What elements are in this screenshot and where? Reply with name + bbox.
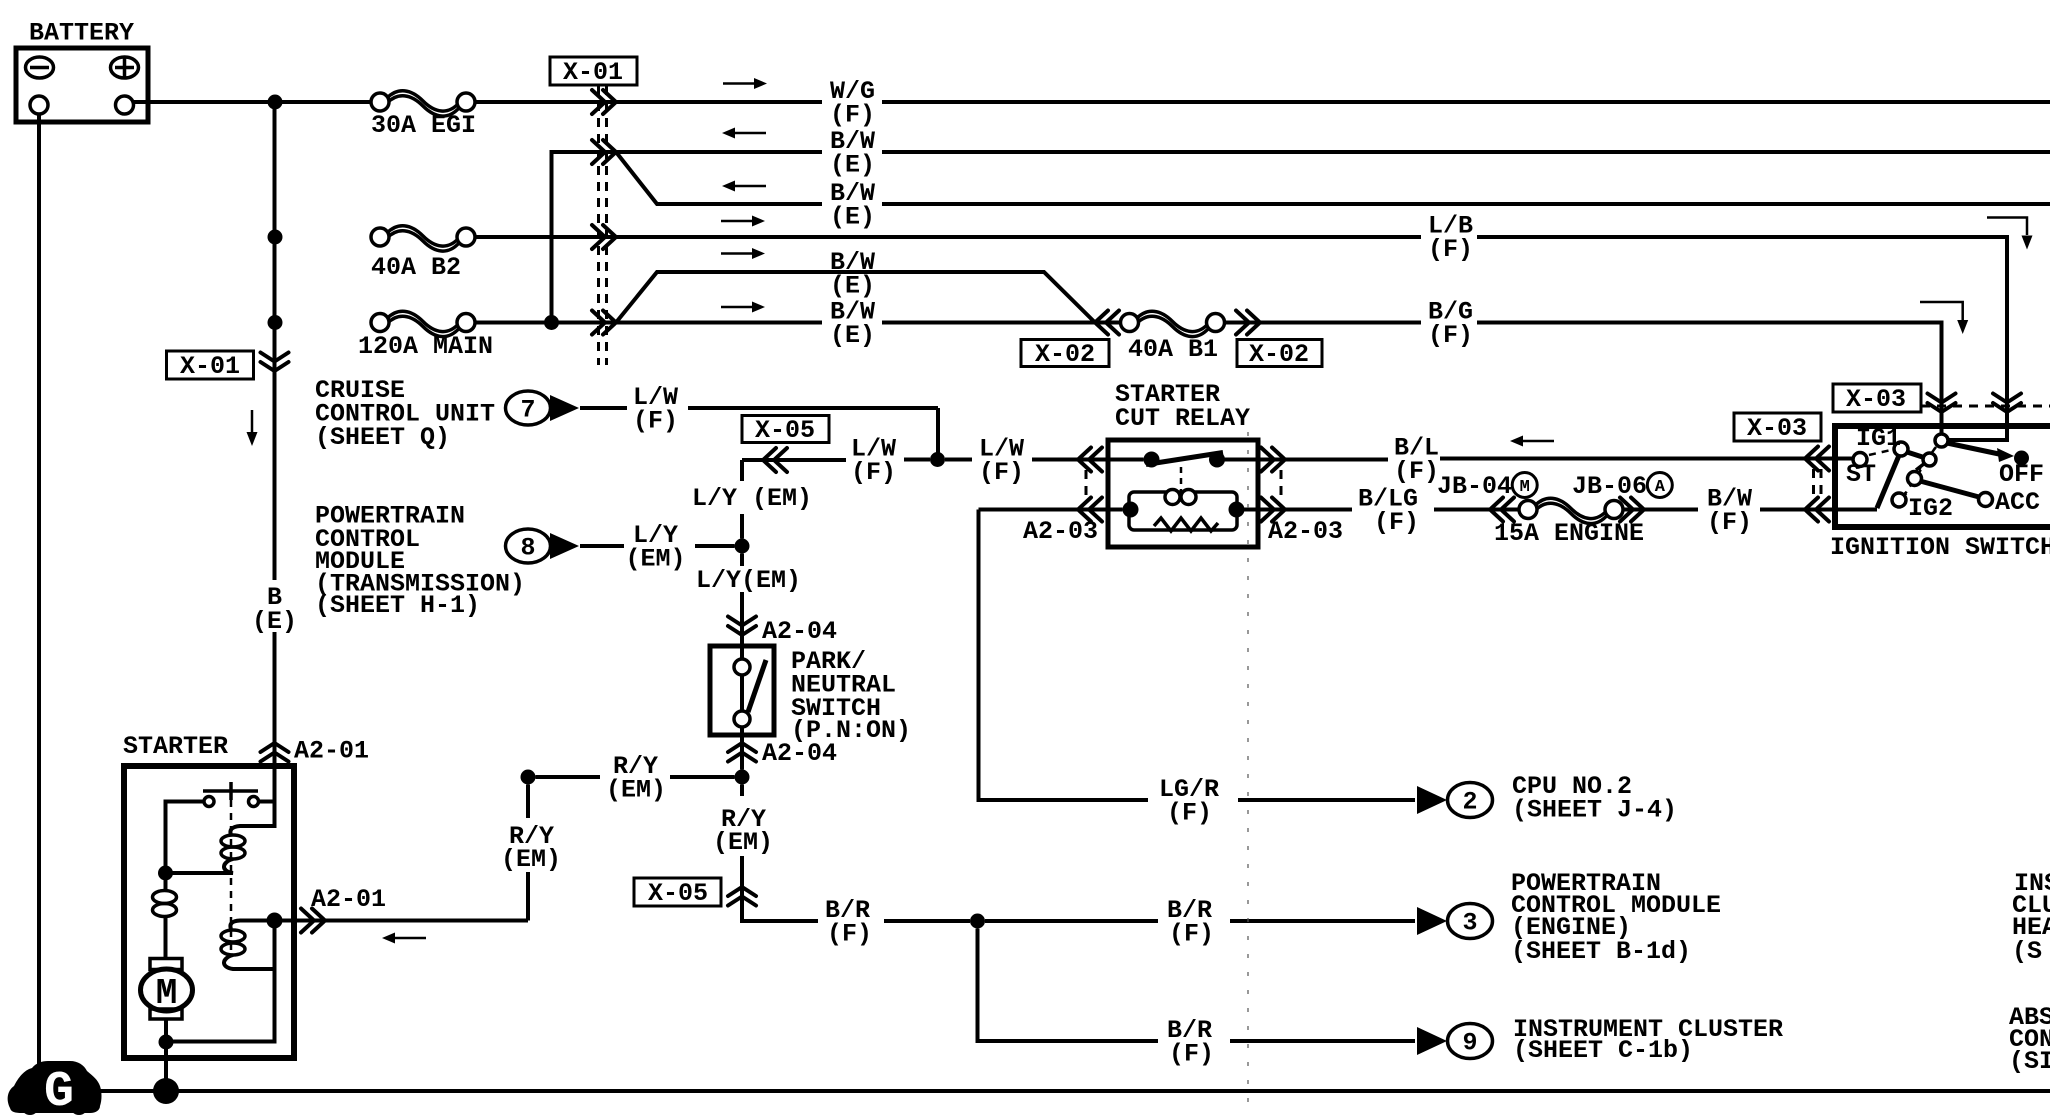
svg-text:M: M — [156, 973, 178, 1014]
svg-text:X-05: X-05 — [755, 416, 815, 445]
svg-text:X-01: X-01 — [180, 352, 240, 381]
svg-text:(EM): (EM) — [606, 776, 666, 805]
svg-text:(F): (F) — [1428, 321, 1473, 350]
svg-text:STARTER: STARTER — [123, 732, 228, 761]
svg-text:(F): (F) — [1428, 235, 1473, 264]
svg-text:(SHEET C-1b): (SHEET C-1b) — [1513, 1036, 1693, 1065]
svg-text:ACC: ACC — [1995, 488, 2040, 517]
svg-text:X-01: X-01 — [563, 58, 623, 87]
svg-text:IGNITION SWITCH: IGNITION SWITCH — [1830, 533, 2050, 562]
svg-text:(E): (E) — [830, 321, 875, 350]
svg-text:A2-03: A2-03 — [1023, 517, 1098, 546]
svg-text:(SI: (SI — [2009, 1047, 2050, 1076]
svg-text:(F): (F) — [830, 101, 875, 130]
svg-text:(E): (E) — [252, 607, 297, 636]
svg-text:120A MAIN: 120A MAIN — [358, 332, 493, 361]
svg-text:X-02: X-02 — [1035, 340, 1095, 369]
svg-text:OFF: OFF — [1999, 460, 2044, 489]
svg-text:(F): (F) — [979, 458, 1024, 487]
svg-text:(SHEET J-4): (SHEET J-4) — [1512, 796, 1677, 825]
svg-text:A2-03: A2-03 — [1268, 517, 1343, 546]
svg-text:8: 8 — [521, 534, 536, 563]
svg-text:15A ENGINE: 15A ENGINE — [1494, 519, 1644, 548]
svg-text:JB-04: JB-04 — [1437, 472, 1512, 501]
svg-text:JB-06: JB-06 — [1572, 472, 1647, 501]
svg-text:40A B2: 40A B2 — [371, 253, 461, 282]
svg-text:(F): (F) — [1707, 508, 1752, 537]
svg-text:(S: (S — [2012, 937, 2042, 966]
svg-text:X-03: X-03 — [1846, 385, 1906, 414]
svg-text:9: 9 — [1463, 1029, 1478, 1058]
svg-text:(F): (F) — [851, 458, 896, 487]
svg-text:A2-01: A2-01 — [294, 737, 369, 766]
svg-text:(E): (E) — [830, 203, 875, 232]
svg-text:(F): (F) — [827, 920, 872, 949]
svg-text:A2-01: A2-01 — [311, 885, 386, 914]
svg-text:X-02: X-02 — [1249, 340, 1309, 369]
svg-text:A2-04: A2-04 — [762, 739, 837, 768]
svg-text:3: 3 — [1463, 909, 1478, 938]
svg-text:L/Y (EM): L/Y (EM) — [692, 484, 812, 513]
svg-text:2: 2 — [1463, 788, 1478, 817]
svg-text:A2-04: A2-04 — [762, 617, 837, 646]
svg-text:X-05: X-05 — [648, 879, 708, 908]
svg-text:CUT RELAY: CUT RELAY — [1115, 404, 1250, 433]
svg-text:IG2: IG2 — [1908, 494, 1953, 523]
svg-text:(F): (F) — [1374, 508, 1419, 537]
svg-text:(EM): (EM) — [501, 845, 561, 874]
svg-text:(E): (E) — [830, 151, 875, 180]
svg-text:(F): (F) — [1169, 920, 1214, 949]
svg-text:(F): (F) — [633, 407, 678, 436]
svg-text:G: G — [44, 1064, 74, 1120]
svg-text:7: 7 — [521, 396, 536, 425]
svg-text:BATTERY: BATTERY — [29, 19, 134, 48]
svg-text:(SHEET H-1): (SHEET H-1) — [315, 591, 480, 620]
svg-text:M: M — [1520, 478, 1530, 497]
svg-text:(F): (F) — [1169, 1040, 1214, 1069]
svg-text:40A B1: 40A B1 — [1128, 335, 1218, 364]
svg-text:(EM): (EM) — [626, 545, 686, 574]
svg-text:X-03: X-03 — [1747, 414, 1807, 443]
svg-text:(SHEET Q): (SHEET Q) — [315, 423, 450, 452]
svg-text:(EM): (EM) — [713, 828, 773, 857]
svg-text:IG1: IG1 — [1856, 424, 1901, 453]
svg-text:(SHEET B-1d): (SHEET B-1d) — [1511, 937, 1691, 966]
svg-text:(F): (F) — [1167, 799, 1212, 828]
svg-text:A: A — [1655, 478, 1666, 497]
svg-text:ST: ST — [1846, 460, 1876, 489]
svg-text:(E): (E) — [830, 272, 875, 301]
svg-text:(F): (F) — [1394, 457, 1439, 486]
svg-text:30A EGI: 30A EGI — [371, 111, 476, 140]
svg-text:L/Y(EM): L/Y(EM) — [696, 566, 801, 595]
